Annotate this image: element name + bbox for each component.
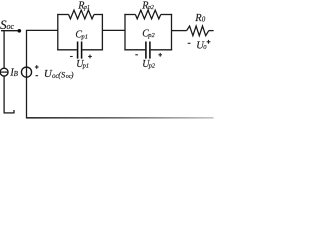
wire R0 right stub	[209, 30, 214, 32]
wire RC1 left vertical	[57, 14, 59, 51]
wire main loop left vertical	[26, 30, 28, 117]
wire RC2 top rail left	[124, 14, 135, 16]
wire bottom-left tick	[13, 110, 15, 113]
wire IB branch top	[3, 31, 5, 69]
svg-text:p1: p1	[83, 5, 90, 11]
svg-text:p1: p1	[82, 62, 89, 69]
svg-text:0: 0	[203, 44, 207, 51]
wire IB branch bottom	[3, 76, 5, 113]
wire RC1 top rail right	[94, 14, 103, 16]
svg-text:0: 0	[202, 16, 206, 24]
wire RC2 right vertical	[171, 14, 173, 51]
svg-text:B: B	[14, 70, 19, 78]
label plus of U0	[207, 40, 211, 44]
voltage source Uocv	[21, 67, 31, 77]
wire bottom rail	[26, 117, 214, 119]
capacitor Cp2	[145, 42, 147, 59]
wire RC1 right vertical	[101, 14, 103, 51]
current source IB	[0, 68, 8, 76]
wire RC2 top rail right	[161, 14, 172, 16]
wire bottom-left horizontal	[4, 112, 15, 114]
node Soc junction dot	[17, 29, 21, 33]
wire RC1 cap rail left	[57, 49, 77, 51]
svg-text:): )	[70, 70, 74, 80]
label minus of Up2	[135, 54, 138, 56]
label minus of Up1	[70, 56, 73, 58]
resistor Rp2	[135, 10, 160, 19]
wire RC1 cap rail right	[82, 49, 103, 51]
wire main top left segment	[26, 29, 58, 31]
label plus of Up1	[88, 55, 92, 59]
svg-text:p2: p2	[148, 63, 156, 70]
label minus of Uocv	[36, 75, 39, 77]
label plus of Up2	[158, 53, 162, 57]
wire between RC1 and RC2	[102, 29, 125, 31]
resistor Rp1	[69, 10, 94, 19]
label plus of Uocv	[35, 65, 39, 69]
wire RC2 left vertical	[124, 14, 126, 51]
wire RC2 cap rail right	[151, 49, 173, 51]
wire RC1 top rail left	[57, 14, 68, 16]
capacitor Cp1	[77, 42, 79, 59]
label minus of U0	[188, 42, 191, 44]
svg-text:oc: oc	[7, 22, 15, 31]
svg-text:p2: p2	[147, 32, 155, 39]
wire RC2 cap rail left	[124, 49, 145, 51]
svg-text:p2: p2	[147, 5, 154, 11]
wire Soc stub	[1, 30, 19, 32]
resistor R0	[187, 26, 209, 36]
wire RC2 to R0	[172, 30, 187, 32]
svg-text:p1: p1	[81, 33, 88, 40]
